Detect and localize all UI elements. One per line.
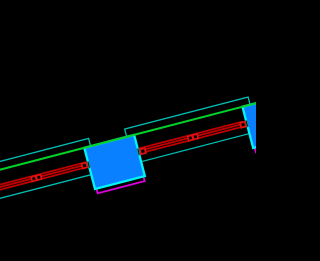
- via V2 at pad P1 right edge: [140, 148, 146, 154]
- poly wire W2 upper rail: [139, 122, 242, 151]
- contact notch inside pad P1 left edge: [87, 161, 90, 168]
- via V1 at pad P1 left edge: [81, 163, 87, 169]
- well outline (magenta) under pad P2: [244, 96, 302, 153]
- contact notch inside pad P2 left edge: [245, 120, 248, 127]
- via V3 at pad P2 left edge: [240, 122, 246, 128]
- boundary box of wire segment W1 (teal outline): [0, 138, 98, 204]
- metal pad P2 (blue square, cyan border, clipped at right): [242, 94, 303, 148]
- boundary box of wire segment W2 (teal outline): [125, 97, 257, 164]
- via pair at middle of wire W1 (left box): [31, 176, 36, 181]
- contact notch inside pad P1 right edge: [137, 148, 140, 155]
- diffusion line (green) along pad tops: [0, 75, 320, 181]
- poly wire W2 lower rail: [140, 124, 243, 153]
- metal pad P1 (blue square, cyan border): [84, 135, 145, 189]
- via pair at middle of wire W2 (right box): [193, 134, 198, 139]
- well outline (magenta) under pad P1: [86, 137, 144, 194]
- via pair at middle of wire W1 (right box): [36, 175, 41, 180]
- via pair at middle of wire W2 (left box): [188, 135, 193, 140]
- poly wire W1 upper rail: [0, 162, 87, 195]
- poly wire W1 lower rail: [0, 164, 88, 197]
